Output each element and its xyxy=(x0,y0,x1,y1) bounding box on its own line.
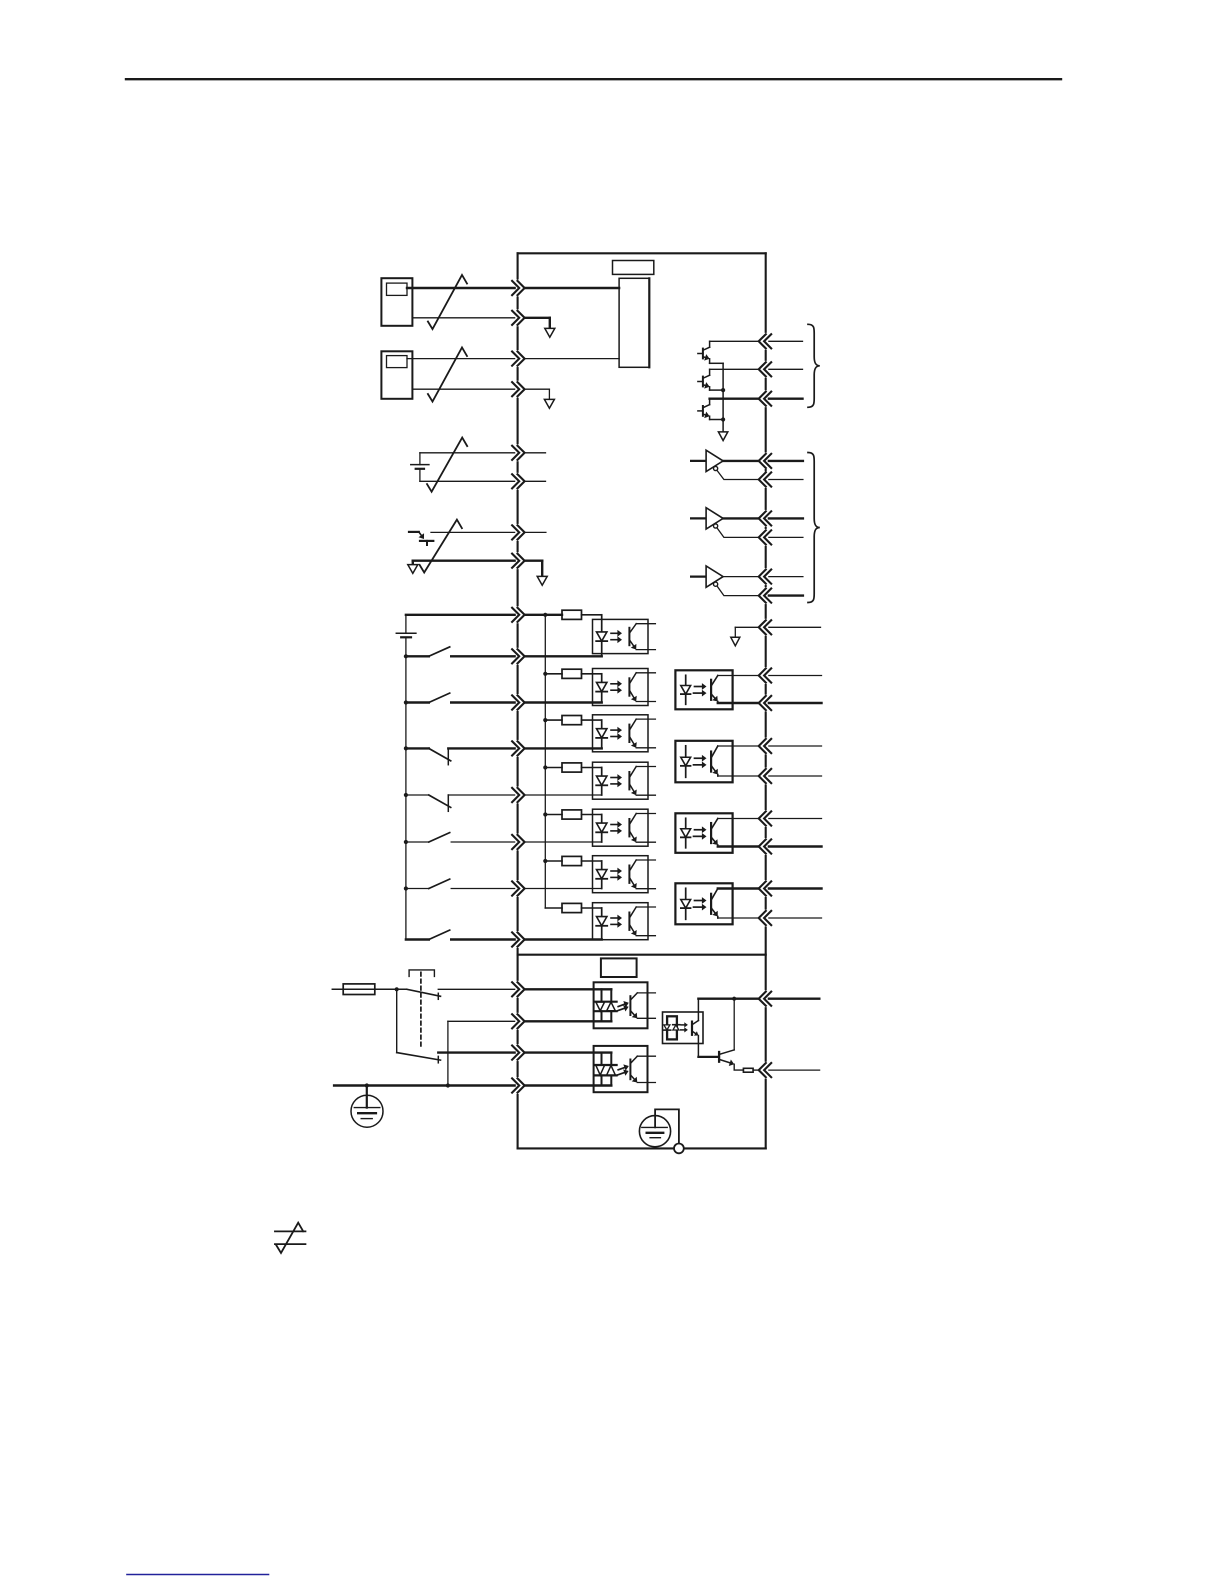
optocoupler PC2 body xyxy=(593,669,649,706)
pin chevron ALM+ xyxy=(764,992,771,1006)
pin chevron diff+ xyxy=(512,446,519,460)
wire driver U3 true output xyxy=(723,517,759,519)
differential source battery B1 lower lead xyxy=(419,469,421,482)
wire driver U3 true external xyxy=(769,517,803,519)
wire R2 to opto xyxy=(582,673,602,675)
pin chevron diff- xyxy=(512,474,519,488)
wire Q1 emitter to common xyxy=(710,362,724,364)
wire R4 to opto xyxy=(582,767,602,769)
wire PG common xyxy=(412,317,514,319)
contactor contact K1a xyxy=(407,989,441,996)
transistor Q4 xyxy=(718,1052,720,1062)
signal ground arrow internal xyxy=(731,637,740,646)
junction rail R5 xyxy=(543,812,547,816)
wire driver U4 true external xyxy=(769,576,803,578)
wire output Q3 external xyxy=(769,398,803,400)
output optocoupler OC2 phototransistor xyxy=(710,752,712,772)
contactor mechanical link dashed xyxy=(420,972,422,1049)
wire OC2 collector external xyxy=(769,745,822,747)
optocoupler PC4 LED xyxy=(601,768,603,796)
pin chevron OC2 collector xyxy=(764,739,771,753)
wire NG common xyxy=(412,388,514,390)
optocoupler PC3 light arrows xyxy=(611,729,617,731)
pin chevron PP xyxy=(512,281,519,295)
wire R3 to opto xyxy=(582,719,602,721)
wire internal ground branch xyxy=(735,626,758,628)
wire diff- internal stub xyxy=(525,480,546,482)
optocoupler PC3 LED xyxy=(601,720,603,748)
output optocoupler OC4 phototransistor xyxy=(710,894,712,914)
fuse F1 xyxy=(343,984,375,995)
pin chevron driver U2 true xyxy=(764,454,771,468)
wire driver U2 inverted external xyxy=(769,479,803,481)
pin chevron driver U4 inverted xyxy=(764,589,771,603)
wire OC1 emitter external xyxy=(769,702,822,704)
output optocoupler OC1 phototransistor xyxy=(710,680,712,700)
pin chevron NG xyxy=(512,382,519,396)
earth terminal on enclosure xyxy=(674,1144,684,1154)
wire ALM- external xyxy=(769,1069,820,1071)
pin chevron DC24V xyxy=(512,608,519,622)
optocoupler PC6 LED xyxy=(601,861,603,889)
wire DI5 internal xyxy=(525,841,602,843)
line driver U3 input stub xyxy=(691,517,706,519)
pin chevron DI7 xyxy=(512,932,519,946)
wire output Q3 collector xyxy=(709,399,711,405)
switch SW4 xyxy=(404,793,408,797)
pulse source PG1 inner block xyxy=(387,283,408,295)
line driver U4 inverting bubble xyxy=(714,582,718,586)
pin chevron OC1 collector xyxy=(764,668,771,682)
wire analog input internal stub xyxy=(525,531,546,533)
pin chevron DI6 xyxy=(512,881,519,895)
pin chevron analog input xyxy=(512,525,519,539)
output optocoupler OC4 light arrows xyxy=(695,900,702,902)
optocoupler PC1 phototransistor xyxy=(628,628,630,645)
differential source battery B1 xyxy=(419,453,421,465)
wire driver U4 inverted output xyxy=(717,586,759,595)
line driver U2 inverting bubble xyxy=(714,466,718,470)
battery DC24V symbol xyxy=(405,615,407,634)
transistor Q2 xyxy=(698,381,703,383)
zener diode D1 xyxy=(743,1068,753,1072)
wire DI4 internal xyxy=(525,794,602,796)
wire mains branch down xyxy=(396,989,398,1052)
alarm optocoupler OC5 light arrows xyxy=(681,1024,684,1026)
output optocoupler OC3 light arrows xyxy=(695,829,702,831)
line driver U3 triangle xyxy=(706,508,723,529)
pin chevron PG xyxy=(512,311,519,325)
wire DI6 internal xyxy=(525,888,602,890)
output optocoupler OC3 phototransistor xyxy=(710,823,712,843)
wire PG internal stub xyxy=(525,317,550,319)
alarm optocoupler OC5 LED enclosure xyxy=(667,1016,677,1039)
wire driver U3 inverted external xyxy=(769,536,803,538)
page header rule xyxy=(126,78,1061,80)
output optocoupler OC3 LED xyxy=(685,818,687,848)
wire output Q2 external xyxy=(769,368,803,370)
AC optocoupler AC2 body xyxy=(594,1046,648,1092)
switch SW7 xyxy=(406,938,429,940)
wire OC3 emitter external xyxy=(769,845,822,847)
wire R7 to opto xyxy=(582,907,602,909)
optocoupler PC7 phototransistor xyxy=(628,913,630,930)
optocoupler PC6 light arrows xyxy=(611,870,617,872)
AC optocoupler AC1 wire in lower xyxy=(525,1020,612,1022)
wire ALM+ external xyxy=(769,998,819,1000)
wire alarm supply xyxy=(698,998,758,1000)
wire DI7 internal xyxy=(525,938,602,940)
twisted pair marker TP2 xyxy=(428,347,467,401)
twisted pair marker TP3 xyxy=(427,438,467,492)
output optocoupler OC1 LED xyxy=(685,675,687,704)
wire driver U3 inverted output xyxy=(717,528,759,537)
wire R6 to opto xyxy=(582,860,602,862)
input interface block U1 xyxy=(619,278,649,367)
pin chevron DI2 xyxy=(512,695,519,709)
wire output Q1 collector xyxy=(709,341,711,347)
output optocoupler OC1 body xyxy=(675,670,732,709)
wire output Q2 collector xyxy=(709,369,711,375)
wire Q2 emitter to common xyxy=(710,389,724,391)
transistor Q1 xyxy=(698,353,703,355)
wire ALM- internal xyxy=(753,1069,759,1071)
pulse source PG2 inner block xyxy=(387,356,408,368)
connector label box CN1 xyxy=(613,261,654,275)
wire base drive xyxy=(698,1056,718,1058)
pin chevron N2 xyxy=(512,1078,519,1092)
wire DC24V internal xyxy=(525,614,562,616)
junction earth tap xyxy=(365,1083,369,1087)
pin chevron common SG xyxy=(764,620,771,634)
output optocoupler OC2 light arrows xyxy=(695,757,702,759)
junction alarm supply xyxy=(732,997,736,1001)
pin chevron NP xyxy=(512,352,519,366)
wire diff+ internal stub xyxy=(525,452,546,454)
signal ground arrow emitter bus xyxy=(718,432,727,441)
optocoupler PC4 body xyxy=(593,762,649,799)
pin chevron L2 xyxy=(512,1046,519,1060)
wire mains neutral xyxy=(334,1084,514,1086)
pulse source box PG2 xyxy=(381,351,412,399)
contactor contact K1b xyxy=(397,1053,441,1061)
optocoupler PC5 LED xyxy=(601,815,603,843)
output optocoupler OC4 LED xyxy=(685,888,687,919)
potentiometer VR1 tap tick xyxy=(426,541,428,545)
internal section divider xyxy=(518,954,766,956)
signal ground arrow analog left xyxy=(408,565,418,574)
servo amplifier enclosure left edge xyxy=(517,253,519,278)
alarm optocoupler OC5 phototransistor xyxy=(691,1022,693,1035)
protective earth PE2 lead xyxy=(655,1109,679,1143)
optocoupler PC2 phototransistor xyxy=(628,678,630,695)
switch SW1 xyxy=(404,654,408,658)
AC optocoupler AC2 light arrows xyxy=(618,1068,624,1070)
wire analog ground internal xyxy=(525,560,543,562)
signal ground arrow PG xyxy=(545,328,555,337)
optocoupler PC5 body xyxy=(593,809,649,846)
pin chevron analog ground xyxy=(512,554,519,568)
wire diff- xyxy=(420,480,515,482)
pin chevron DI5 xyxy=(512,835,519,849)
signal ground arrow analog internal xyxy=(537,576,547,585)
potentiometer VR1 wiper arrow xyxy=(419,532,421,535)
servo amplifier enclosure right edge xyxy=(765,253,767,331)
pin chevron OC1 emitter xyxy=(764,696,771,710)
junction rail R4 xyxy=(543,765,547,769)
pin chevron OC3 emitter xyxy=(764,839,771,853)
pin chevron DI4 xyxy=(512,788,519,802)
optocoupler PC4 light arrows xyxy=(611,777,617,779)
legend twisted pair marker xyxy=(276,1223,303,1253)
pin chevron driver U4 true xyxy=(764,570,771,584)
wire neutral return xyxy=(448,1020,515,1022)
potentiometer VR1 element bar xyxy=(420,540,433,542)
pin chevron driver U3 true xyxy=(764,511,771,525)
battery negative bus xyxy=(405,637,407,939)
pin chevron output Q2 xyxy=(764,362,771,376)
legend twisted pair wires xyxy=(275,1230,306,1232)
wire analog input xyxy=(431,531,515,533)
group brace outputs B xyxy=(808,453,820,603)
optocoupler PC7 LED xyxy=(601,908,603,940)
wire PP internal to U1 xyxy=(525,287,620,289)
line driver U4 triangle xyxy=(706,566,723,587)
AC optocoupler AC1 wire in upper xyxy=(525,988,612,990)
pin chevron ALM- xyxy=(764,1063,771,1077)
twisted pair marker TP1 xyxy=(428,275,467,329)
optocoupler PC2 light arrows xyxy=(611,683,617,685)
junction rail R3 xyxy=(543,718,547,722)
optocoupler PC6 phototransistor xyxy=(628,866,630,883)
pin chevron OC2 emitter xyxy=(764,769,771,783)
optocoupler PC1 body xyxy=(593,619,649,653)
potentiometer VR1 top lead xyxy=(409,531,419,533)
pin chevron OC3 collector xyxy=(764,811,771,825)
internal supply rail xyxy=(544,615,546,908)
signal ground arrow NG xyxy=(544,399,554,408)
AC optocoupler AC1 phototransistor xyxy=(629,996,631,1015)
wire driver U2 true output xyxy=(723,460,759,462)
resistor R1 xyxy=(562,610,582,619)
protective earth PE1 xyxy=(351,1095,383,1127)
pin chevron output Q3 xyxy=(764,392,771,406)
line driver U2 input stub xyxy=(691,460,706,462)
switch SW3 xyxy=(404,746,408,750)
wire mains L1 xyxy=(332,988,406,990)
wire R1 to opto xyxy=(582,614,602,616)
junction DC24V rail xyxy=(543,613,547,617)
wire driver U4 inverted external xyxy=(769,594,803,596)
wire driver U4 true output xyxy=(723,576,759,578)
wire NP pulse signal xyxy=(407,358,515,360)
switch SW2 xyxy=(404,700,408,704)
pin chevron L1 xyxy=(512,982,519,996)
output optocoupler OC1 light arrows xyxy=(695,686,702,688)
wire driver U2 inverted output xyxy=(717,471,759,480)
alarm optocoupler OC5 LED pair xyxy=(664,1029,671,1031)
wire common SG external xyxy=(769,626,821,628)
optocoupler PC2 LED xyxy=(601,674,603,703)
switch SW5 xyxy=(404,840,408,844)
pulse source box PG1 xyxy=(381,278,412,326)
optocoupler PC6 body xyxy=(593,856,649,893)
pin chevron output Q1 xyxy=(764,334,771,348)
pin chevron driver U2 inverted xyxy=(764,472,771,486)
AC optocoupler AC1 light arrows xyxy=(618,1004,624,1006)
optocoupler PC4 phototransistor xyxy=(628,772,630,789)
AC optocoupler AC2 wire in lower xyxy=(525,1084,612,1086)
line driver U4 input stub xyxy=(691,575,706,577)
wire OC4 emitter external xyxy=(769,917,822,919)
AC optocoupler AC2 phototransistor xyxy=(629,1060,631,1080)
wire OC1 collector external xyxy=(769,675,822,677)
output optocoupler OC2 body xyxy=(675,741,732,783)
wire NG internal stub xyxy=(525,388,550,390)
pin chevron driver U3 inverted xyxy=(764,530,771,544)
protective earth PE1 lead xyxy=(366,1086,368,1108)
junction Q3 emitter xyxy=(721,417,725,421)
transistor Q3 xyxy=(698,410,703,412)
group brace outputs A xyxy=(808,324,820,407)
AC optocoupler AC2 wire in upper xyxy=(525,1051,612,1053)
footer rule xyxy=(127,1574,269,1576)
junction rail R2 xyxy=(543,672,547,676)
output optocoupler OC3 body xyxy=(675,813,732,853)
servo amplifier enclosure bottom edge xyxy=(518,1147,766,1149)
output optocoupler OC2 LED xyxy=(685,746,687,778)
AC optocoupler AC1 LED pair xyxy=(601,989,603,1001)
wire NP internal to U1 xyxy=(525,358,620,360)
pin chevron DI1 xyxy=(512,649,519,663)
pin chevron OC4 collector xyxy=(764,881,771,895)
optocoupler PC7 body xyxy=(593,903,649,940)
line driver U2 triangle xyxy=(706,450,723,471)
wire output Q1 external xyxy=(769,340,803,342)
alarm optocoupler OC5 body xyxy=(663,1012,704,1044)
optocoupler PC1 light arrows xyxy=(611,632,617,634)
junction rail R6 xyxy=(543,859,547,863)
AC optocoupler AC2 LED pair xyxy=(601,1053,603,1065)
wire Q4 emitter xyxy=(734,1064,743,1070)
wire DI2 internal xyxy=(525,701,602,703)
wire PP pulse signal xyxy=(407,287,515,289)
servo amplifier enclosure top edge xyxy=(518,252,766,254)
wire diff+ xyxy=(420,452,515,454)
output optocoupler OC4 body xyxy=(675,883,732,924)
wire Q3 emitter to common xyxy=(710,419,724,421)
contactor link staple xyxy=(409,970,434,977)
AC optocoupler AC1 body xyxy=(594,982,648,1028)
wire common emitter bus xyxy=(722,363,724,432)
wire R5 to opto xyxy=(582,814,602,816)
junction Q2 emitter xyxy=(721,388,725,392)
twisted pair marker TP4 xyxy=(420,520,462,573)
pin chevron DI3 xyxy=(512,741,519,755)
wire opto emitter fall xyxy=(697,1036,699,1057)
optocoupler PC3 body xyxy=(593,715,649,752)
wire analog ground xyxy=(413,560,515,562)
wire Q4 collector riser xyxy=(733,999,735,1050)
wire DI1 internal xyxy=(525,655,602,657)
optocoupler PC5 phototransistor xyxy=(628,819,630,836)
optocoupler PC7 light arrows xyxy=(611,917,617,919)
wire OC2 emitter external xyxy=(769,775,822,777)
junction mains split xyxy=(395,987,399,991)
protective earth PE2 xyxy=(639,1116,670,1147)
pin chevron OC4 emitter xyxy=(764,911,771,925)
optocoupler PC5 light arrows xyxy=(611,824,617,826)
battery DC24V positive wire xyxy=(406,614,515,616)
wire OC4 collector external xyxy=(769,887,822,889)
junction neutral xyxy=(446,1083,450,1087)
resistor R7 xyxy=(545,907,562,909)
label box CN2 xyxy=(601,958,637,977)
optocoupler PC1 LED xyxy=(601,615,603,657)
line driver U3 inverting bubble xyxy=(714,524,718,528)
wire DI3 internal xyxy=(525,747,602,749)
wire driver U2 true external xyxy=(769,460,803,462)
pin chevron N1 xyxy=(512,1014,519,1028)
optocoupler PC3 phototransistor xyxy=(628,725,630,742)
wire opto collector riser xyxy=(697,999,699,1021)
wire OC3 collector external xyxy=(769,818,822,820)
switch SW6 xyxy=(404,886,408,890)
